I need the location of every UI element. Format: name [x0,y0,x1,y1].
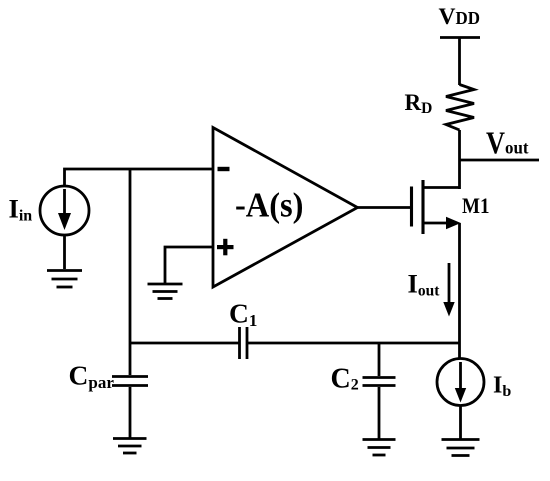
svg-text:M1: M1 [462,193,490,218]
svg-text:VDD: VDD [439,4,480,30]
svg-text:-A(s): -A(s) [235,187,304,225]
